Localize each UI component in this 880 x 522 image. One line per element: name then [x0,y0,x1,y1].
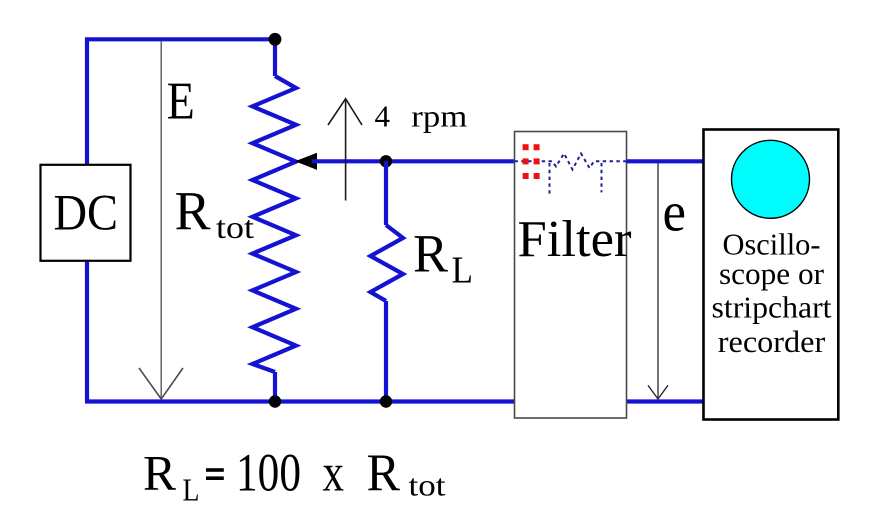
filter dashed drop line left [549,163,551,194]
wiper arrowhead (black triangle) [295,153,317,170]
4 rpm arrowhead up [328,99,362,125]
label Rtot [175,181,255,245]
svg-text:R: R [175,181,211,242]
label 4 rpm [375,99,468,133]
svg-text:tot: tot [216,209,254,245]
svg-text:L: L [183,472,200,508]
svg-text:recorder: recorder [718,325,826,359]
node dot at Rtot bottom [269,395,281,407]
potentiometer Rtot bottom lead [273,372,277,402]
svg-text:DC: DC [54,186,119,242]
E measurement line [160,42,162,399]
formula R_L = 100 x R_tot [143,443,446,508]
bottom rail wire [85,399,704,403]
svg-text:e: e [663,182,687,244]
4 rpm arrow line [345,100,347,201]
svg-text:stripchart: stripchart [712,291,833,325]
svg-text:rpm: rpm [411,99,467,133]
svg-text:R: R [143,445,177,501]
oscilloscope CRT screen circle [732,140,810,218]
label Filter [518,211,632,268]
E arrowhead down [139,368,183,399]
e measurement line [657,162,659,399]
svg-text:E: E [167,72,195,130]
oscilloscope label text [712,228,833,360]
wire filter to oscilloscope [627,159,704,163]
resistor RL top lead [384,161,388,225]
wire from DC+ up and across to Rtot top node [87,39,272,166]
svg-text:4: 4 [375,99,391,133]
label RL [413,223,473,291]
svg-text:100: 100 [236,443,301,503]
DC source box [41,165,131,261]
resistor RL zigzag body [371,225,404,301]
svg-text:R: R [367,444,401,502]
filter dashed signal waveform [515,154,627,170]
svg-text:x: x [323,443,345,503]
label E [167,72,195,130]
potentiometer Rtot top lead [273,39,277,76]
svg-text:R: R [413,223,448,283]
node dot at wiper/RL junction [380,155,392,167]
wiper wire to filter [312,159,515,163]
svg-text:L: L [452,250,474,292]
label e [663,182,687,244]
svg-text:Filter: Filter [518,211,632,268]
e arrowhead down [648,385,668,399]
filter dashed drop line right [601,163,603,192]
wire from DC- down to bottom rail [85,260,89,402]
oscilloscope box [704,130,839,420]
node dot at RL bottom [380,395,392,407]
resistor RL bottom lead [384,301,388,402]
node dot at Rtot top [269,33,282,46]
svg-text:scope or: scope or [719,257,824,291]
filter input red contact grid [523,144,540,179]
potentiometer Rtot zigzag body [253,76,297,372]
filter box [515,132,627,419]
svg-text:tot: tot [409,468,446,503]
